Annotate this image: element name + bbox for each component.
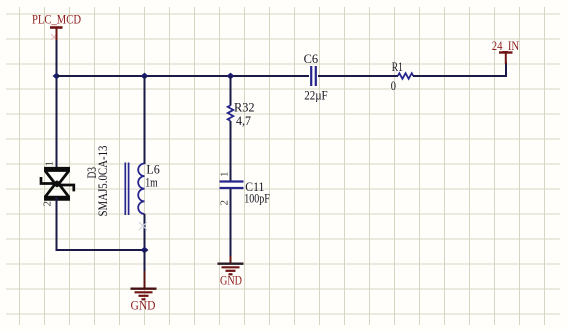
wire bus C6 to R1 bbox=[318, 75, 398, 77]
wire port PLC_MCD to junction bbox=[56, 40, 58, 76]
ground pin stub 2 bbox=[230, 256, 232, 263]
svg-text:PLC_MCD: PLC_MCD bbox=[32, 12, 81, 27]
capacitor C11 bbox=[220, 179, 270, 206]
ground pin stub bbox=[144, 271, 146, 288]
ground GND (left) bbox=[131, 289, 157, 313]
wire C11 to ground bbox=[230, 189, 232, 257]
svg-text:SMAJ5.0CA-13: SMAJ5.0CA-13 bbox=[95, 146, 110, 217]
wire R32 to capacitor C11 bbox=[230, 121, 232, 181]
wire junction D to resistor R32 bbox=[230, 76, 232, 106]
ground GND (middle) bbox=[218, 264, 244, 288]
wire R1 to port 24_IN corner bbox=[413, 62, 506, 76]
no-ERC marker bbox=[139, 222, 147, 230]
svg-text:0: 0 bbox=[391, 78, 396, 93]
port PLC_MCD bbox=[32, 12, 81, 42]
capacitor C6 bbox=[304, 51, 328, 103]
junction A bbox=[53, 73, 61, 80]
svg-text:4,7: 4,7 bbox=[236, 113, 251, 128]
resistor R1 bbox=[391, 59, 414, 93]
diode D3 bbox=[41, 169, 74, 198]
svg-text:R1: R1 bbox=[392, 59, 403, 74]
junction D bbox=[227, 73, 235, 80]
junction C bbox=[141, 247, 149, 254]
svg-text:1: 1 bbox=[44, 161, 56, 167]
svg-text:2: 2 bbox=[219, 200, 231, 206]
svg-text:C6: C6 bbox=[304, 51, 319, 66]
junction B bbox=[141, 73, 149, 80]
wire inductor L6 to junction C bbox=[144, 214, 146, 250]
svg-text:2: 2 bbox=[42, 201, 54, 207]
svg-text:1m: 1m bbox=[145, 175, 158, 190]
wire junction to diode D3 pin 1 bbox=[56, 76, 58, 170]
svg-text:24_IN: 24_IN bbox=[492, 38, 520, 53]
port 24_IN bbox=[492, 38, 520, 64]
svg-text:22µF: 22µF bbox=[304, 88, 328, 103]
wire main bus left segment bbox=[57, 75, 310, 77]
wire junction C to ground bbox=[144, 250, 146, 272]
svg-text:GND: GND bbox=[220, 273, 242, 288]
svg-text:1: 1 bbox=[219, 172, 231, 178]
svg-text:100pF: 100pF bbox=[244, 191, 269, 206]
svg-text:GND: GND bbox=[131, 298, 156, 313]
wire junction B to inductor L6 bbox=[144, 76, 146, 164]
wire diode D3 pin 2 down and right to junction C bbox=[57, 197, 145, 250]
inductor L6 bbox=[125, 162, 160, 216]
marker anchor cross PLC_MCD bbox=[51, 34, 57, 40]
resistor R32 bbox=[228, 100, 255, 129]
